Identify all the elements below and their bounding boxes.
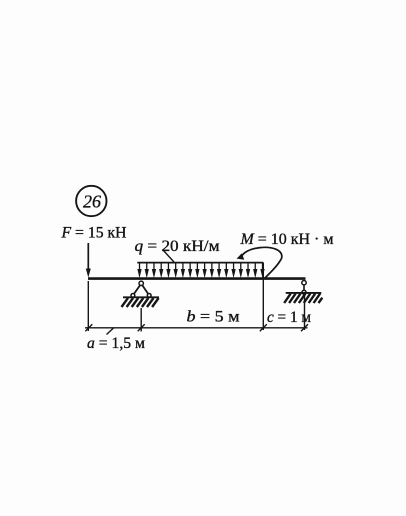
svg-text:a = 1,5 м: a = 1,5 м — [87, 335, 145, 352]
roller support B ground hatching — [284, 293, 322, 303]
beam — [88, 277, 306, 280]
extension line at support A — [140, 308, 142, 332]
dimension tick at load end — [260, 324, 267, 331]
pin support A triangle with pins — [131, 281, 151, 297]
svg-text:M = 10 кН · м: M = 10 кН · м — [240, 231, 334, 248]
stray slash mark on dimension line — [107, 328, 114, 335]
dimension tick at left end — [85, 324, 92, 331]
problem number circle 26 — [76, 186, 106, 216]
dimension tick at support A — [138, 324, 145, 331]
dimension line — [85, 327, 308, 329]
distributed load arrows — [137, 263, 264, 278]
svg-text:b = 5 м: b = 5 м — [187, 309, 240, 326]
extension line at support B — [304, 295, 306, 331]
leader line from q label to load — [163, 250, 175, 263]
extension line at load right end — [262, 263, 264, 330]
distributed load q top line — [137, 262, 263, 264]
svg-text:26: 26 — [83, 192, 101, 212]
svg-text:c = 1 м: c = 1 м — [267, 309, 311, 326]
roller support B pins and link — [302, 281, 306, 295]
force F arrow — [86, 243, 91, 278]
svg-text:F = 15 кН: F = 15 кН — [61, 225, 127, 242]
pin support A ground hatching — [122, 297, 160, 307]
svg-text:q = 20 кН/м: q = 20 кН/м — [135, 238, 220, 255]
extension line at beam left end — [87, 281, 89, 331]
dimension tick at support B — [301, 324, 308, 331]
moment M arc arrow — [237, 247, 282, 278]
